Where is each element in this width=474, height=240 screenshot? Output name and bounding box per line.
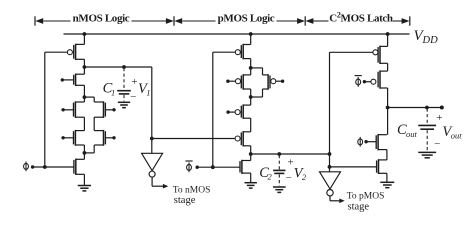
wire M2 source to logic array bbox=[83, 85, 85, 102]
node pair top junction col2 bbox=[249, 66, 253, 70]
wire pair right branch lower col2 bbox=[262, 89, 264, 97]
svg-text:–: – bbox=[130, 91, 137, 102]
ground col3 bbox=[380, 182, 394, 187]
svg-text:stage: stage bbox=[348, 201, 370, 212]
transistor M16 clock nMOS col3 bbox=[376, 134, 387, 150]
wire pair left branch lower col2 bbox=[250, 89, 252, 105]
wire M8 drain to pair bbox=[250, 59, 252, 75]
wire array top crossbar bbox=[84, 96, 94, 98]
label Vout polarity plus bbox=[436, 112, 442, 124]
transistor M2 nMOS col1 bbox=[74, 74, 85, 87]
label nMOS Logic bbox=[73, 12, 130, 24]
wire VDD rail bbox=[64, 33, 410, 35]
wire M5 gate lead bbox=[63, 137, 73, 139]
wire pair right branch upper col2 bbox=[262, 68, 264, 75]
node col1 output branch junction bbox=[150, 137, 154, 141]
wire M15 drain to output node col3 bbox=[387, 88, 389, 135]
wire M4 gate lead bbox=[105, 109, 114, 111]
label phibar col2 bbox=[185, 161, 192, 172]
label V1 polarity plus bbox=[131, 76, 137, 88]
node M10 gate input terminal bbox=[281, 80, 284, 83]
label phi col3 bbox=[358, 137, 363, 147]
wire Vout horizontal bbox=[388, 107, 442, 109]
svg-text:C2MOS Latch: C2MOS Latch bbox=[329, 11, 393, 25]
wire phi rail col1 (vertical) bbox=[44, 52, 46, 167]
label V2 polarity minus bbox=[285, 172, 292, 183]
node logic array top junction bbox=[83, 95, 87, 99]
transistor M6 nMOS array bottom-right bbox=[94, 130, 105, 146]
wire M14 gate to input rail bbox=[330, 51, 373, 53]
wire U1 output elbow bbox=[152, 177, 163, 186]
dimension arrow nMOS Logic span bbox=[35, 18, 174, 24]
wire M10 gate lead bbox=[276, 80, 283, 82]
wire array right branch lower bbox=[93, 145, 95, 153]
inverter U1 (to nMOS stage) bbox=[142, 153, 163, 177]
label V1 bbox=[138, 81, 151, 98]
wire phi input to M7 gate bbox=[34, 166, 74, 168]
wire M1 source to output node bbox=[83, 59, 85, 74]
svg-text:+: + bbox=[436, 112, 442, 124]
transistor M13 clock nMOS col2 bbox=[240, 160, 251, 174]
node M5 gate input terminal bbox=[61, 136, 64, 139]
ground col2 bbox=[245, 183, 257, 188]
label To pMOS stage bbox=[347, 191, 385, 212]
node Vout terminal bbox=[440, 106, 444, 110]
transistor M5 nMOS array bottom-left bbox=[74, 130, 85, 146]
wire M16 to M17 col3 bbox=[386, 150, 388, 160]
node M6 gate input terminal bbox=[112, 136, 115, 139]
dimension tick left (x=35) bbox=[34, 16, 36, 25]
node col2 output bbox=[249, 152, 253, 156]
label Vout bbox=[442, 124, 462, 141]
label C1 bbox=[103, 80, 116, 97]
dimension arrow pMOS Logic span bbox=[174, 18, 305, 24]
wire array right branch middle bbox=[93, 117, 95, 130]
wire M14 to M15 col3 bbox=[387, 63, 389, 71]
node VDD junction col2 bbox=[249, 32, 253, 36]
svg-text:To nMOS: To nMOS bbox=[173, 186, 211, 196]
wire M2 gate lead bbox=[62, 79, 73, 81]
svg-text:2: 2 bbox=[302, 172, 307, 182]
wire phibar input to M13 gate bbox=[197, 166, 240, 168]
transistor M14 pMOS col3 (input) bbox=[373, 46, 388, 64]
dimension arrow C2MOS Latch span bbox=[306, 18, 410, 24]
transistor M9 pMOS pair-left col2 bbox=[236, 74, 251, 90]
node latch rail gate junction bbox=[328, 165, 332, 169]
label VDD bbox=[414, 28, 439, 46]
node M2 gate input terminal bbox=[61, 78, 64, 81]
wire pair bottom crossbar col2 bbox=[251, 96, 263, 98]
transistor M8 clock pMOS col2 bbox=[235, 44, 250, 60]
wire phibar input to M15 gate bbox=[364, 81, 371, 83]
node pair bottom junction col2 bbox=[249, 95, 253, 99]
wire array left branch lower bbox=[83, 145, 85, 159]
label Vout polarity minus bbox=[434, 138, 441, 149]
dimension tick between nMOS and pMOS (x=174) bbox=[173, 16, 175, 25]
label C2 bbox=[259, 165, 272, 182]
wire array right branch upper bbox=[93, 97, 95, 102]
wire col1 output to pMOS logic input bbox=[152, 138, 235, 140]
label phibar col3 bbox=[355, 76, 362, 87]
node Cout tap bbox=[425, 106, 429, 110]
wire phi input to M16 gate bbox=[366, 141, 376, 143]
node phi input terminal col3 bbox=[364, 140, 367, 143]
node C2 tap bbox=[277, 152, 281, 156]
svg-text:out: out bbox=[451, 130, 463, 140]
node phibar input terminal col2 bbox=[196, 166, 199, 169]
capacitor C1 bbox=[117, 68, 131, 108]
svg-text:pMOS Logic: pMOS Logic bbox=[218, 12, 275, 24]
transistor M7 clock nMOS col1 bbox=[74, 159, 85, 175]
transistor M3 nMOS array top-left bbox=[74, 101, 85, 118]
svg-text:DD: DD bbox=[422, 35, 439, 46]
dimension tick right (x=409.8) bbox=[409, 16, 411, 25]
svg-text:out: out bbox=[406, 129, 418, 139]
U1 output arrowhead bbox=[163, 184, 168, 189]
svg-text:nMOS Logic: nMOS Logic bbox=[73, 12, 130, 24]
wire M12 drain to output node col2 bbox=[250, 146, 252, 161]
wire array left branch middle bbox=[83, 117, 85, 130]
wire phibar rail col2 (vertical) bbox=[212, 52, 214, 167]
wire col1 output vertical drop bbox=[151, 67, 153, 153]
label V1 polarity minus bbox=[130, 91, 137, 102]
label V2 polarity plus bbox=[288, 157, 294, 169]
node phibar rail junction col2 bbox=[211, 165, 215, 169]
inverter U2 (to pMOS stage) bbox=[320, 172, 341, 196]
svg-text:To pMOS: To pMOS bbox=[347, 191, 385, 201]
wire array bottom crossbar bbox=[84, 152, 94, 154]
label Cout bbox=[397, 122, 418, 139]
svg-text:–: – bbox=[285, 172, 292, 183]
wire M1 gate to phi rail bbox=[45, 51, 68, 53]
transistor M12 pMOS col2 (driven by col1 output) bbox=[235, 131, 251, 146]
node C1 tap bbox=[122, 65, 126, 69]
wire col1 output horizontal bbox=[84, 66, 151, 68]
label To nMOS stage bbox=[173, 186, 211, 207]
label V2 bbox=[294, 166, 307, 183]
label pMOS Logic bbox=[218, 12, 275, 24]
transistor M1 clock pMOS col1 bbox=[67, 44, 84, 60]
wire VDD to M14 source col3 bbox=[387, 34, 389, 46]
U2 output arrowhead bbox=[339, 199, 344, 204]
capacitor C2 bbox=[273, 155, 286, 192]
svg-text:–: – bbox=[434, 138, 441, 149]
node logic array bottom junction bbox=[83, 151, 87, 155]
wire latch input rail (vertical) bbox=[329, 52, 331, 172]
wire M9 gate lead bbox=[228, 80, 236, 82]
transistor M17 nMOS col3 (input) bbox=[377, 159, 387, 174]
node M3 gate input terminal bbox=[61, 108, 64, 111]
node col3 output bbox=[386, 106, 390, 110]
wire M13 source to ground bbox=[250, 173, 252, 183]
node VDD junction col1 bbox=[83, 32, 87, 36]
wire pair top crossbar col2 bbox=[251, 67, 263, 69]
node VDD junction col3 bbox=[386, 32, 390, 36]
node M11 gate input terminal bbox=[226, 110, 229, 113]
wire latch input to M17 gate bbox=[330, 166, 377, 168]
wire M3 gate lead bbox=[63, 109, 73, 111]
svg-text:2: 2 bbox=[268, 172, 273, 182]
label phi col1 bbox=[24, 161, 29, 171]
node phi rail junction col1 bbox=[43, 165, 47, 169]
node M4 gate input terminal bbox=[112, 108, 115, 111]
node latch rail input junction bbox=[328, 152, 332, 156]
capacitor Cout bbox=[418, 109, 436, 158]
svg-text:stage: stage bbox=[174, 195, 196, 206]
wire VDD to M8 source col2 bbox=[250, 34, 252, 45]
wire M17 source to ground bbox=[386, 173, 388, 182]
wire M8 gate to phibar rail bbox=[213, 51, 235, 53]
wire M11 to M12 col2 bbox=[250, 118, 252, 132]
svg-text:+: + bbox=[131, 76, 137, 88]
transistor M10 pMOS pair-right col2 bbox=[263, 74, 276, 90]
label C2MOS Latch bbox=[329, 11, 393, 25]
wire U2 output elbow bbox=[330, 196, 340, 201]
wire M11 gate lead bbox=[228, 111, 235, 113]
dimension tick between pMOS and latch (x=305.2) bbox=[304, 16, 306, 25]
wire VDD to M1 drain col1 bbox=[83, 34, 85, 44]
svg-text:1: 1 bbox=[146, 88, 150, 98]
wire M7 source to ground bbox=[83, 174, 85, 185]
transistor M15 clock pMOS col3 bbox=[371, 70, 388, 88]
node phi input terminal col1 bbox=[31, 165, 34, 168]
wire col2 output horizontal bbox=[251, 153, 330, 155]
ground col1 bbox=[78, 186, 91, 191]
node col1 output bbox=[83, 65, 87, 69]
transistor M11 pMOS col2 bbox=[235, 104, 251, 119]
svg-text:1: 1 bbox=[111, 87, 115, 97]
node phibar input terminal col3 bbox=[363, 80, 366, 83]
transistor M4 nMOS array top-right bbox=[94, 101, 105, 118]
wire M6 gate lead bbox=[105, 137, 114, 139]
node M9 gate input terminal bbox=[226, 80, 229, 83]
